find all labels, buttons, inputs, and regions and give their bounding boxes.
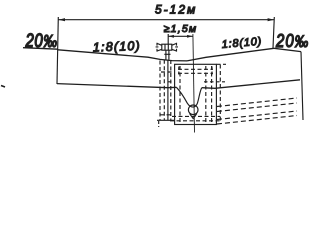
extension line right	[273, 17, 274, 48]
box inner dashed end right	[211, 67, 213, 76]
rail group bottom tick	[158, 121, 160, 127]
right slab dashed line2	[217, 103, 297, 112]
axis centerline	[193, 34, 195, 133]
box inner dashed slab top line2	[178, 72, 213, 74]
right edge vertical	[301, 52, 303, 120]
dimension 5-12m line	[58, 19, 274, 21]
svg-text:1:8(10): 1:8(10)	[93, 39, 141, 55]
dashed row y82 right	[204, 81, 225, 83]
box inner dashed end left	[178, 67, 180, 76]
svg-text:5-12м: 5-12м	[155, 3, 197, 17]
rail group dashed vertical3	[170, 60, 172, 120]
box lower dashed row1	[172, 115, 220, 117]
rail clamp left	[156, 43, 162, 52]
extension line left / left edge vertical	[57, 17, 58, 84]
dimension 5-12m right arrow	[268, 18, 275, 21]
svg-text:1:8(10): 1:8(10)	[221, 36, 262, 51]
rail clamp right	[172, 43, 178, 52]
scan speck	[1, 86, 5, 88]
pavement bottom left line	[57, 84, 176, 88]
rail head inner vertical2	[167, 44, 169, 50]
dimension 5-12m left arrow	[59, 18, 66, 21]
rail web vertical1	[165, 50, 167, 60]
box inner dashed vertical right2	[211, 66, 213, 123]
box inner dashed vertical left	[179, 66, 181, 123]
rail web vertical2	[168, 50, 170, 60]
right companion dashed top	[217, 63, 227, 65]
drain pipe circle	[188, 105, 198, 115]
rail group bottom bar	[157, 119, 175, 121]
road surface left slope 1:8	[58, 50, 187, 61]
rail foot bar	[164, 53, 170, 55]
dimension 1.5m left arrow	[168, 35, 174, 38]
dimension 1.5m line	[168, 35, 193, 37]
grade line 20 left	[23, 48, 58, 50]
crossing slab box	[175, 64, 217, 124]
right slab dashed line1	[217, 98, 297, 107]
box inner dashed vertical right1	[205, 66, 207, 123]
rail head inner vertical1	[164, 44, 166, 50]
rail head box	[162, 44, 172, 50]
rail group dash y72	[161, 71, 172, 73]
box inner dashed slab top line1	[178, 68, 213, 70]
rail group dashed vertical1	[159, 61, 161, 121]
right slab dashed line4	[217, 116, 297, 125]
dimension 1.5m right arrow	[187, 35, 193, 38]
drain funnel below circle	[190, 114, 197, 119]
box lower dashed row2	[170, 120, 222, 122]
flangeway trough	[176, 87, 201, 107]
extension 1.5m left	[167, 34, 169, 44]
rail group dashed vertical2	[163, 60, 165, 120]
svg-text:≥1,5м: ≥1,5м	[164, 23, 198, 35]
road surface right slope 1:8	[187, 48, 274, 61]
rail group dash y114.8	[160, 114, 172, 116]
right slab dashed line3	[217, 111, 297, 120]
right companion dashed vertical	[219, 65, 221, 123]
rail group vertical solid	[167, 60, 169, 120]
road surface right 20permille	[274, 48, 301, 51]
pavement bottom right line	[202, 80, 300, 89]
dashed row y82 left	[168, 81, 174, 83]
svg-text:20‰: 20‰	[275, 30, 309, 51]
